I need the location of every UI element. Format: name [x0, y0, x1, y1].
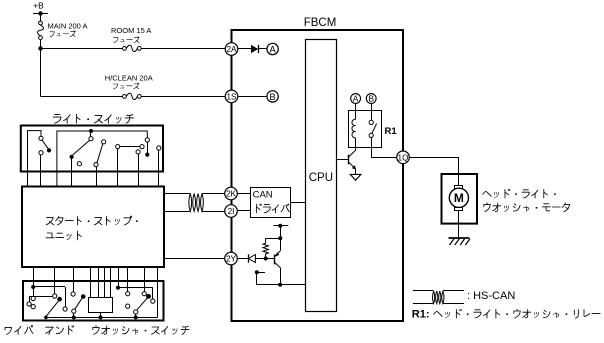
svg-text:2I: 2I — [228, 207, 235, 216]
svg-text:R1: R1 — [385, 126, 398, 137]
svg-text:A: A — [353, 94, 359, 104]
svg-text:CPU: CPU — [309, 172, 333, 184]
svg-text:+B: +B — [33, 1, 44, 11]
svg-text:R1:: R1: — [412, 309, 430, 321]
svg-text:B: B — [269, 92, 275, 103]
svg-text:MAIN 200 A: MAIN 200 A — [48, 21, 88, 30]
svg-text:2K: 2K — [226, 190, 237, 199]
svg-text:1S: 1S — [226, 92, 237, 101]
svg-text:FBCM: FBCM — [304, 17, 337, 29]
svg-text:1Q: 1Q — [398, 153, 409, 162]
svg-text:CAN: CAN — [253, 190, 273, 201]
svg-text:H/CLEAN 20A: H/CLEAN 20A — [105, 73, 153, 82]
svg-text:2A: 2A — [226, 45, 237, 54]
svg-text:ROOM 15 A: ROOM 15 A — [111, 26, 151, 35]
svg-text:: HS-CAN: : HS-CAN — [467, 290, 515, 302]
svg-text:M: M — [454, 191, 464, 205]
svg-text:A: A — [269, 44, 276, 55]
svg-text:B: B — [368, 94, 374, 104]
svg-text:2Y: 2Y — [226, 255, 237, 264]
